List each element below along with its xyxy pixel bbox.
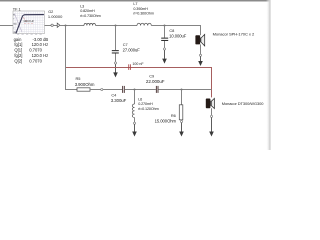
wire L6 tap down — [134, 90, 136, 105]
svg-text:1.00000: 1.00000 — [48, 14, 63, 19]
resistor R6 — [179, 105, 183, 120]
wire R5 row left — [66, 89, 77, 91]
svg-text:-3.00 dB: -3.00 dB — [33, 37, 49, 42]
wire dropper from node A down to R5 row — [65, 26, 68, 90]
ground arrow below woofer — [198, 56, 203, 66]
wire rail corner down to woofer — [200, 26, 202, 36]
label C9 value — [146, 74, 165, 84]
label R6 value — [155, 113, 177, 124]
svg-text:L6: L6 — [138, 98, 142, 102]
svg-text:ri=0.120Ohm: ri=0.120Ohm — [138, 107, 158, 111]
node junction C7 tap — [115, 25, 117, 27]
svg-text:0.390mH: 0.390mH — [133, 7, 148, 11]
wire L3 to C7 tap — [96, 25, 138, 27]
node circle R5/C4 — [101, 88, 103, 90]
svg-text:ri=0.300Ohm: ri=0.300Ohm — [133, 12, 153, 16]
ground arrow below C7 — [113, 64, 118, 77]
wire G2 circle to buffer triangle — [53, 25, 57, 27]
wire R6 to node circle — [181, 119, 183, 122]
svg-text:0.7070: 0.7070 — [29, 59, 42, 64]
wire C9 to tweeter node — [158, 89, 211, 91]
label L6 value block — [138, 98, 158, 111]
svg-text:3.300uF: 3.300uF — [111, 98, 127, 103]
wire input left edge to TF1 block — [0, 25, 13, 27]
inductor L6 — [132, 104, 134, 118]
svg-text:R6: R6 — [171, 113, 176, 118]
wire node circle to C4 — [103, 89, 122, 91]
node junction L6 tap — [134, 89, 136, 91]
buffer triangle G2 — [57, 23, 60, 27]
capacitor C7 — [112, 50, 119, 53]
ground arrow below tweeter — [209, 118, 214, 137]
red wire node A to tweeter (added 100nF mod) — [66, 68, 212, 98]
wire L6 to node circle — [134, 118, 136, 123]
svg-text:120.0 Hz: 120.0 Hz — [32, 42, 49, 47]
capacitor C4 — [122, 86, 125, 93]
node circle below woofer — [199, 54, 201, 56]
svg-text:Monacor DT300/WG300: Monacor DT300/WG300 — [222, 101, 264, 106]
ground arrow below C8 — [162, 50, 167, 64]
label C7 value — [123, 42, 141, 52]
svg-text:fg[2]: fg[2] — [14, 53, 22, 58]
node circle below R6 — [180, 120, 182, 122]
wire C4 to C9 — [125, 89, 156, 91]
wire rail to C7 — [115, 26, 117, 51]
wire TF1 to G2 — [45, 25, 52, 27]
wire rail to C8 — [164, 26, 166, 38]
svg-text:ri=0.730Ohm: ri=0.730Ohm — [80, 14, 100, 18]
label R5 value — [75, 76, 95, 87]
inductor L3 — [84, 23, 96, 25]
svg-text:27.000uF: 27.000uF — [123, 47, 141, 52]
resistor R5 — [77, 88, 90, 91]
label L7 value block — [133, 2, 153, 15]
node circle below tweeter — [210, 115, 212, 117]
svg-text:C8: C8 — [169, 28, 174, 33]
svg-text:Q[2]: Q[2] — [14, 59, 22, 64]
wire top rail G2 to L3 — [60, 25, 84, 27]
label C4 value — [111, 92, 127, 103]
capacitor C9 — [156, 86, 159, 93]
svg-text:TF 1: TF 1 — [13, 6, 21, 11]
wire woofer to node circle — [200, 44, 202, 54]
inductor L7 — [137, 23, 151, 25]
parameter text block (gain/fg/Q) — [14, 37, 49, 64]
label L3 value block — [80, 4, 100, 17]
svg-text:C9: C9 — [149, 74, 154, 79]
svg-text:0.7070: 0.7070 — [29, 48, 42, 53]
svg-text:Monacor SPH-170C x 2: Monacor SPH-170C x 2 — [213, 31, 255, 36]
capacitor red 100nF — [128, 64, 131, 70]
node circle below L6 — [133, 122, 135, 124]
wire C8 to node circle — [164, 41, 166, 48]
svg-text:22.000uF: 22.000uF — [146, 79, 165, 84]
svg-text:10.000uF: 10.000uF — [169, 33, 187, 38]
capacitor C8 — [161, 38, 168, 41]
node circle below C7 — [114, 62, 116, 64]
svg-text:gain: gain — [14, 37, 23, 42]
node junction A — [65, 25, 67, 27]
ground arrow below R6 — [179, 123, 184, 137]
label C8 value — [169, 28, 187, 39]
wire R5 to node circle — [90, 89, 101, 91]
wire C7 to node circle — [115, 54, 117, 62]
node junction C8 tap — [164, 25, 166, 27]
svg-text:0.270mH: 0.270mH — [138, 102, 153, 106]
node junction R6 tap — [181, 89, 183, 91]
ground arrow below L6 — [132, 124, 137, 136]
wire tweeter to node circle — [211, 108, 213, 115]
node circle below C8 — [163, 48, 165, 50]
speaker LS1 woofer Monacor SPH-170C — [195, 34, 204, 46]
wire L7 to woofer — [151, 25, 201, 27]
svg-text:120.0 Hz: 120.0 Hz — [32, 53, 49, 58]
svg-text:Q[1]: Q[1] — [14, 48, 22, 53]
svg-text:L3: L3 — [80, 4, 84, 8]
svg-text:15.000Ohm: 15.000Ohm — [155, 118, 177, 123]
source G2 (circle) — [51, 24, 53, 26]
speaker LS2 tweeter Monacor DT300/WG300 — [206, 98, 215, 108]
svg-text:L7: L7 — [133, 2, 137, 6]
svg-text:0.820mH: 0.820mH — [80, 9, 95, 13]
wire R6 tap down — [181, 90, 183, 105]
svg-text:fg[1]: fg[1] — [14, 42, 22, 47]
svg-text:100 nF: 100 nF — [132, 62, 144, 66]
svg-text:3.900Ohm: 3.900Ohm — [75, 82, 95, 87]
svg-text:R5: R5 — [76, 76, 81, 81]
svg-text:120.0 Hz: 120.0 Hz — [23, 19, 34, 23]
op-amp U1 transfer-function block TF 1 (graph box) — [13, 11, 45, 34]
